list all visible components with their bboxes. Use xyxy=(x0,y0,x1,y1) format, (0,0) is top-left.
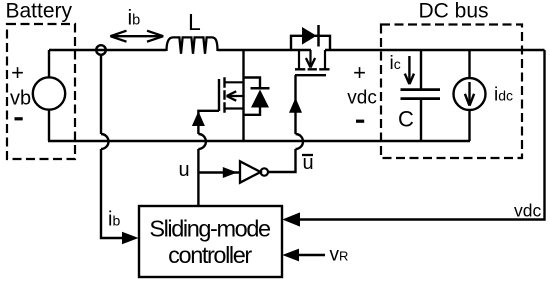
drain stub xyxy=(298,50,300,69)
body stub xyxy=(309,50,311,68)
node ib tap xyxy=(96,45,106,55)
svg-text:idc: idc xyxy=(494,85,513,106)
svg-text:Battery: Battery xyxy=(6,0,73,23)
svg-text:ic: ic xyxy=(390,53,401,74)
svg-text:vb: vb xyxy=(10,88,31,110)
inductor L xyxy=(167,37,218,53)
channel segments xyxy=(223,77,225,112)
gate bar xyxy=(218,79,220,111)
svg-text:L: L xyxy=(188,9,201,35)
capacitor C bottom lead xyxy=(420,99,422,141)
source stub xyxy=(324,50,326,69)
arrow Q1 body (points into channel) xyxy=(227,91,237,100)
svg-text:C: C xyxy=(398,106,414,131)
controller box xyxy=(139,206,282,277)
wire ubar vertical to Q2 gate xyxy=(294,75,296,134)
svg-text:DC bus: DC bus xyxy=(419,0,489,23)
svg-text:u: u xyxy=(179,159,190,181)
svg-text:+: + xyxy=(353,60,366,85)
inverter U1 triangle xyxy=(240,161,261,182)
svg-text:Sliding-mode: Sliding-mode xyxy=(149,216,271,242)
svg-text:u: u xyxy=(303,152,314,174)
double arrow ib flow xyxy=(110,31,163,42)
diode D1 (Q1 body diode) xyxy=(244,78,261,90)
voltage source Vb circle xyxy=(33,77,65,109)
arrowhead ib into controller xyxy=(122,232,139,245)
arrow u into inverter xyxy=(223,167,238,178)
wire Q1 drain riser xyxy=(242,50,244,141)
svg-text:vdc: vdc xyxy=(347,88,377,109)
wire Vdc feedback xyxy=(300,50,545,220)
drain stub xyxy=(225,81,244,83)
diode D2 (Q2 parallel diode) xyxy=(291,36,330,50)
wire u vertical into controller xyxy=(197,149,199,206)
cathode bar D1 xyxy=(251,87,270,90)
battery dashed enclosure xyxy=(7,24,75,159)
DC bus dashed enclosure xyxy=(381,25,522,159)
inverter U1 bubble xyxy=(261,168,268,175)
arrow Q2 body (points into channel) xyxy=(306,58,315,68)
body stub xyxy=(227,95,244,97)
source stub xyxy=(225,107,244,109)
arrow ic current xyxy=(408,56,410,84)
svg-text:vR: vR xyxy=(330,245,349,266)
wire vR reference xyxy=(299,254,325,256)
cathode bar D2 xyxy=(317,25,320,47)
wire bottom rail xyxy=(48,140,470,142)
wire top rail left xyxy=(49,49,166,51)
triangle D1 xyxy=(251,90,269,108)
wire Q1 gate lead xyxy=(198,111,219,134)
svg-text:vdc: vdc xyxy=(514,200,541,220)
svg-text:ib: ib xyxy=(108,209,120,231)
minus sign vdc xyxy=(356,120,364,123)
hop ubar line over bottom rail xyxy=(296,134,304,149)
arrow u gate drive up xyxy=(192,111,205,126)
svg-text:controller: controller xyxy=(168,242,252,268)
triangle D2 xyxy=(302,27,317,45)
arrow ubar gate drive up xyxy=(289,98,302,113)
wire battery top lead xyxy=(48,50,50,77)
wire ib sense vertical with hop xyxy=(100,55,102,134)
arrowhead vR into controller xyxy=(282,249,299,262)
overbar of ubar label xyxy=(302,154,313,156)
minus sign battery xyxy=(15,117,23,120)
transistor Q1 (lower MOSFET) xyxy=(219,77,244,112)
arrowhead Vdc into controller xyxy=(282,212,300,226)
channel segments xyxy=(295,68,330,70)
wire top rail mid xyxy=(218,49,312,51)
transistor Q2 (upper MOSFET) xyxy=(295,50,330,75)
capacitor C top lead xyxy=(420,50,422,89)
svg-text:+: + xyxy=(11,60,24,85)
wire ubar from inverter xyxy=(268,149,296,172)
hop u line over bottom rail xyxy=(198,134,206,149)
current source idc xyxy=(468,50,470,79)
wire top rail right xyxy=(325,49,545,51)
wire battery bottom lead xyxy=(48,110,50,141)
wire u branch to inverter xyxy=(198,171,240,173)
capacitor C plates xyxy=(401,90,441,99)
gate bar xyxy=(295,74,326,76)
